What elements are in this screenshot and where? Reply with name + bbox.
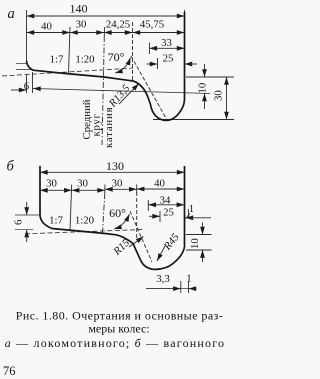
dim 25 [157,58,159,69]
b dim 34 [147,200,149,211]
svg-text:а — локомотивного; б — вагонно: а — локомотивного; б — вагонного [5,336,226,350]
extension line left x26.5 [26,10,28,61]
svg-text:6: 6 [24,81,30,93]
R13,5 leader [119,84,139,105]
svg-text:1:20: 1:20 [75,215,94,227]
b dim 1 top bar [188,209,190,219]
svg-text:40: 40 [41,21,52,33]
b dashed rolling level [25,230,143,234]
svg-text:круг: круг [91,113,103,136]
b level lines for 10 [186,234,212,236]
svg-text:6: 6 [13,219,25,225]
svg-text:40: 40 [154,177,165,189]
dashed rolling surface level [2,68,133,76]
svg-text:катания: катания [103,107,115,148]
extension line x70 [69,27,71,73]
svg-text:76: 76 [3,364,16,378]
svg-text:25: 25 [163,207,174,219]
extension line x104 top [103,27,105,36]
svg-text:25: 25 [163,53,174,65]
R45 leader [157,246,165,261]
svg-text:3,3: 3,3 [156,273,170,285]
dim row 40/30/24,25/45,75 line [27,32,71,34]
svg-text:24,25: 24,25 [106,19,130,31]
left ticks [16,63,27,65]
svg-text:30: 30 [112,177,123,189]
b dim row 30/30/30/40 [40,189,72,191]
60 deg dashed face line [130,211,152,262]
b dim 6 left [15,214,40,216]
svg-text:34: 34 [160,195,171,207]
svg-text:а: а [8,6,15,22]
dim 140 line [27,15,185,17]
svg-text:10: 10 [197,83,209,94]
svg-text:30: 30 [76,19,87,31]
svg-text:1:20: 1:20 [75,54,94,66]
70 deg angle arc [115,58,131,74]
dim 33 [148,43,150,55]
flange tip level y119.5 [153,119,234,121]
svg-text:30: 30 [46,177,57,189]
b bottom dim 3,3 / 1 [180,281,182,293]
level line 10 below rolling surface [33,89,210,94]
svg-text:Рис. 1.80. Очертания и основны: Рис. 1.80. Очертания и основные раз- [16,309,224,323]
svg-text:33: 33 [161,37,172,49]
R15 leader [129,237,144,248]
svg-text:60°: 60° [109,206,126,220]
svg-text:130: 130 [106,159,124,173]
svg-text:45,75: 45,75 [140,19,164,31]
b extension x71.7 [70,185,72,232]
60 deg arc [114,214,130,229]
b dim 130 [40,171,185,173]
svg-text:30: 30 [77,177,88,189]
b extension x105 + dash-dot [104,185,106,194]
svg-text:1:7: 1:7 [49,215,63,227]
svg-text:1: 1 [186,273,191,285]
wheel profile a [27,12,185,120]
svg-text:1: 1 [189,203,194,215]
svg-text:10: 10 [189,238,201,249]
rolling circle dash-dot line x104 [102,36,104,145]
dim 30 [226,77,228,120]
svg-text:140: 140 [70,2,88,16]
70 deg dashed face line [131,56,167,120]
b dim 25 [159,211,161,222]
b extension x136.7 [136,185,138,194]
inner face extension x184.5 [184,10,186,100]
svg-text:меры колес:: меры колес: [88,322,149,336]
dim 6 [26,75,28,93]
svg-text:б: б [7,159,15,175]
dim 10 arrows [204,64,206,77]
svg-text:70°: 70° [108,50,125,64]
svg-text:30: 30 [213,90,225,101]
wheel profile b [40,166,185,269]
svg-text:1:7: 1:7 [50,54,64,66]
extension dashes x132.5 [132,22,134,80]
right reference level y77 [186,76,234,78]
